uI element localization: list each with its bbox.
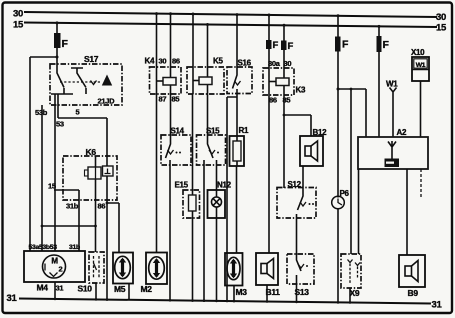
wire 53 to M4 — [54, 105, 56, 251]
S13 switch — [297, 254, 302, 271]
svg-text:30: 30 — [159, 57, 167, 66]
A2 wire to X9 right pin — [358, 169, 360, 254]
W1 wire to A2 — [392, 96, 394, 137]
M4 motor symbol — [43, 255, 66, 278]
P6 wire to bus31 — [337, 209, 339, 303]
K5 wire right from bus15 — [207, 25, 209, 95]
fuse F4 — [335, 37, 341, 52]
S15 switch — [208, 135, 214, 158]
M3 wire to bus31 — [233, 286, 235, 302]
switch S14 box — [161, 135, 191, 165]
wire R1 to M3 — [236, 166, 238, 253]
svg-text:31: 31 — [56, 284, 64, 293]
svg-text:31b: 31b — [69, 244, 80, 251]
svg-text:15: 15 — [13, 20, 24, 31]
switch S10 box — [89, 252, 104, 283]
K6 coil top stub — [95, 156, 97, 167]
switch S12 box — [277, 188, 316, 219]
wire K3 86 to B11 — [268, 95, 270, 253]
X10 wire to A2 — [420, 81, 422, 137]
fuse F5 — [377, 36, 382, 52]
connector X9 box — [341, 254, 361, 288]
wire pin5 to K6 — [58, 105, 107, 156]
X10 inner W1 terminal box — [414, 59, 427, 68]
X9 wire to bus31 — [349, 288, 351, 303]
svg-text:B9: B9 — [408, 288, 419, 298]
K4 wire pin86 from bus30 — [170, 14, 172, 67]
junction node — [56, 56, 59, 59]
S17 switch lever 1 — [57, 64, 64, 88]
svg-text:M5: M5 — [114, 284, 126, 294]
switch S17 box — [50, 64, 122, 105]
relay K5 box — [187, 67, 224, 94]
K4 coil — [163, 78, 176, 86]
M4 wire to bus 31 — [54, 282, 56, 300]
relay K4 box — [150, 67, 182, 94]
wire 53b to M4 — [41, 105, 43, 251]
svg-text:30: 30 — [436, 12, 446, 23]
svg-text:30: 30 — [284, 59, 292, 68]
svg-text:A2: A2 — [397, 128, 407, 137]
S17 contact mark — [91, 81, 97, 85]
K3 internal wires — [269, 68, 284, 95]
svg-text:S14: S14 — [171, 127, 185, 136]
svg-text:30: 30 — [13, 9, 23, 20]
svg-text:30a: 30a — [268, 59, 281, 68]
svg-text:S16: S16 — [238, 59, 252, 68]
svg-text:86: 86 — [172, 57, 180, 66]
E15 wire to bus31 — [192, 211, 194, 301]
bus 31 — [19, 299, 431, 304]
motor M4 box — [24, 251, 85, 282]
motor M2 box — [146, 253, 167, 285]
tee to B12 — [284, 115, 311, 136]
svg-text:31: 31 — [7, 293, 18, 304]
svg-text:85: 85 — [172, 95, 180, 104]
svg-text:M3: M3 — [236, 287, 248, 297]
fuse F2 — [266, 40, 272, 49]
svg-text:15: 15 — [436, 23, 447, 34]
svg-text:W1: W1 — [386, 80, 398, 89]
fuse F1 — [54, 33, 61, 48]
S14 out wire to bus31 — [169, 160, 171, 301]
wire K6 out to M5 — [107, 203, 119, 252]
svg-text:B12: B12 — [313, 128, 328, 137]
fuse F4 wire — [337, 16, 339, 198]
svg-text:N12: N12 — [217, 181, 232, 190]
wire K6 out to bus31 — [106, 176, 108, 300]
S17 intermittent triangle — [102, 75, 112, 86]
svg-text:S17: S17 — [84, 54, 99, 64]
S17 internal collector wire — [51, 88, 86, 105]
svg-text:S12: S12 — [288, 180, 302, 189]
svg-text:2: 2 — [59, 265, 63, 274]
B11 speaker symbol — [261, 264, 267, 274]
K6 switch in wire — [106, 156, 108, 166]
svg-text:M: M — [51, 257, 58, 266]
A2 wire to B9 — [406, 169, 408, 255]
wire S16 to bus31 — [226, 97, 228, 302]
svg-text:F: F — [342, 39, 349, 51]
K4 wire pin30 from bus30 — [156, 14, 158, 67]
bus31 junction dots — [54, 298, 57, 301]
wire junction 53b/K6-86 — [42, 225, 96, 227]
S17 switch pole 2 — [71, 68, 86, 88]
wire S16 to R1 — [236, 97, 238, 136]
M5 wire to bus31 — [128, 284, 130, 301]
fuse F3 wire — [283, 25, 285, 68]
svg-text:M2: M2 — [141, 284, 153, 294]
fuse F2 wire — [268, 15, 270, 68]
switch S16 box — [227, 67, 252, 94]
fuse F5 wire — [378, 26, 380, 137]
wire K6 86 to S10 — [95, 179, 97, 252]
resistor R1 box — [230, 136, 245, 166]
S16 out tee — [227, 89, 237, 97]
svg-text:R1: R1 — [239, 126, 249, 135]
fuse F1 wire — [56, 23, 58, 64]
svg-text:M4: M4 — [37, 283, 49, 293]
tee fuse F4 to A2 and X9 — [338, 89, 366, 254]
svg-text:31: 31 — [432, 300, 443, 311]
S10 switch symbol — [94, 256, 100, 279]
connector X10 box — [412, 57, 429, 81]
relay K3 box — [263, 68, 294, 95]
svg-text:K3: K3 — [296, 86, 306, 95]
clock P6 — [332, 196, 345, 209]
K6 switch element — [103, 166, 114, 176]
B12 speaker symbol — [305, 146, 311, 156]
S13 wire to bus31 — [296, 275, 298, 303]
svg-text:K4: K4 — [145, 57, 155, 66]
N12 wire to bus31 — [216, 208, 218, 302]
svg-text:31b: 31b — [66, 202, 79, 211]
motor M3 box — [225, 253, 243, 286]
junction on bus15 — [56, 21, 59, 24]
M5 motor symbol — [115, 256, 131, 278]
svg-text:15: 15 — [48, 182, 56, 191]
svg-text:S10: S10 — [78, 284, 93, 294]
X9 pin contacts — [348, 260, 361, 266]
heater element E15 box — [183, 190, 200, 218]
S12 switch — [298, 188, 304, 210]
speaker B9 box — [399, 255, 425, 287]
K3 coil — [276, 78, 289, 86]
svg-text:86: 86 — [269, 96, 277, 105]
B11 wire to bus31 — [266, 285, 268, 302]
K4 internal wires — [157, 67, 171, 94]
svg-text:87: 87 — [159, 95, 167, 104]
svg-text:S15: S15 — [206, 127, 220, 136]
wire K3 85 to S12 — [283, 95, 285, 188]
motor M5 box — [113, 253, 133, 284]
speaker B11 box — [256, 253, 278, 285]
B9 speaker symbol — [405, 266, 412, 276]
svg-text:K6: K6 — [86, 147, 97, 157]
K5 coil — [199, 77, 212, 85]
K4 wire 85 to S14 — [170, 94, 172, 135]
wire K6 31b to M4 — [78, 190, 80, 251]
svg-text:53a53b53: 53a53b53 — [29, 244, 58, 251]
svg-text:5: 5 — [76, 108, 80, 117]
S16 wire from bus30 — [236, 15, 238, 67]
B12 wire down to S12 — [302, 166, 304, 188]
svg-text:P6: P6 — [340, 189, 350, 198]
K6 coil — [88, 167, 101, 179]
svg-text:X9: X9 — [350, 288, 360, 298]
S10 wire to bus31 — [95, 283, 97, 300]
relay K6 box — [63, 156, 117, 200]
radio A2 box — [358, 137, 428, 169]
K6 pin15 stub — [54, 189, 79, 191]
S15 out wire to bus31 — [203, 160, 205, 301]
speaker B12 box — [300, 136, 323, 166]
S15 out wire to N12 — [216, 160, 218, 190]
svg-text:21JD: 21JD — [98, 97, 116, 106]
svg-text:E15: E15 — [175, 181, 189, 190]
A2 dashed stub — [420, 169, 422, 198]
S16 switch — [233, 67, 238, 89]
svg-text:53: 53 — [56, 120, 64, 129]
fuse F3 — [281, 41, 287, 51]
wire to M4 53a — [30, 57, 57, 251]
svg-text:F: F — [273, 40, 279, 51]
svg-text:86: 86 — [98, 202, 106, 211]
E15 resistor — [189, 195, 197, 211]
K5 wire left down to E15 — [192, 94, 194, 195]
S14 switch — [166, 135, 171, 158]
switch S13 box — [287, 254, 314, 284]
K5 wire right down to S15 — [207, 94, 209, 135]
S17 linkage dashed — [60, 81, 100, 83]
M3 motor symbol — [227, 257, 240, 279]
S12 out to S13 — [296, 214, 298, 254]
R1 resistor — [233, 141, 241, 161]
svg-text:F: F — [288, 41, 294, 52]
svg-text:K5: K5 — [213, 57, 223, 66]
svg-text:X10: X10 — [411, 48, 425, 57]
lamp N12 box — [208, 190, 226, 218]
K4 wire 87 to M2 — [156, 94, 158, 252]
N12 lamp — [212, 197, 222, 207]
K5 wire left from bus30 — [192, 14, 194, 94]
bus 30 — [24, 12, 437, 17]
svg-text:W1: W1 — [416, 62, 426, 69]
svg-text:F: F — [383, 39, 390, 51]
A2 antenna symbol — [388, 141, 396, 159]
switch S15 box — [197, 135, 226, 165]
M2 motor symbol — [149, 257, 165, 279]
svg-text:F: F — [62, 38, 69, 50]
bus 15 — [24, 23, 437, 28]
